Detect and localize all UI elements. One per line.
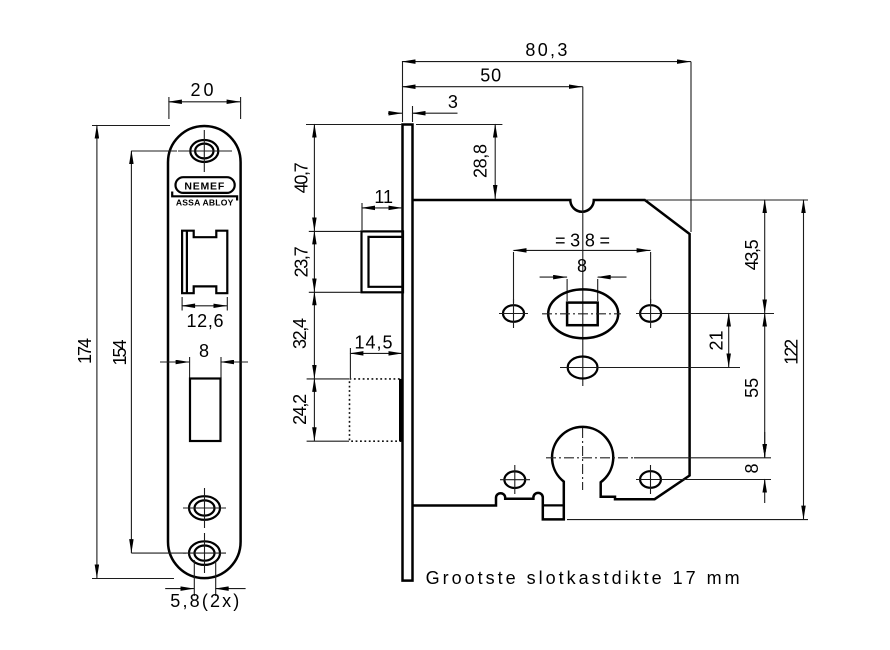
bottom right case hole — [636, 465, 771, 494]
svg-text:Grootste slotkastdikte 17 mm: Grootste slotkastdikte 17 mm — [426, 568, 740, 588]
bottom caption text — [426, 568, 740, 588]
svg-text:43,5: 43,5 — [742, 239, 762, 270]
left case hole — [499, 299, 528, 328]
lock case outline side view — [413, 200, 690, 519]
svg-text:55: 55 — [742, 378, 762, 398]
svg-text:11: 11 — [374, 187, 393, 207]
svg-text:154: 154 — [110, 340, 130, 366]
svg-text:23,7: 23,7 — [292, 246, 312, 277]
svg-text:12,6: 12,6 — [187, 311, 224, 331]
follower hole with square — [542, 289, 621, 338]
dimension 43,5 — [742, 200, 765, 314]
svg-text:8: 8 — [742, 463, 762, 473]
dimension 8 (deadbolt cutout width) — [160, 341, 248, 378]
lower middle hole — [560, 357, 740, 379]
svg-text:122: 122 — [782, 339, 802, 365]
bottom left case hole — [500, 465, 530, 494]
svg-text:NEMEF: NEMEF — [184, 181, 225, 193]
dimension 28,8 — [416, 125, 502, 200]
dimension 122 — [782, 200, 804, 520]
dimension 20 — [169, 80, 241, 119]
svg-text:8: 8 — [577, 256, 587, 276]
bottom screw hole — [183, 533, 226, 573]
case top extension line — [645, 199, 808, 201]
latch bolt side view — [362, 231, 404, 292]
dimension 5,8(2x) — [165, 560, 245, 611]
dimension 21 — [707, 314, 729, 368]
deadbolt cutout front view — [190, 379, 221, 442]
dimension 50 — [403, 66, 583, 211]
dimension 12,6 — [182, 297, 227, 331]
svg-text:14,5: 14,5 — [355, 332, 393, 352]
svg-text:3: 3 — [448, 92, 458, 112]
svg-text:28,8: 28,8 — [471, 144, 491, 178]
ASSA ABLOY logo — [172, 192, 237, 208]
left chain extension lines side view — [306, 125, 402, 442]
svg-text:40,7: 40,7 — [292, 162, 312, 193]
dimension 14,5 — [350, 332, 402, 378]
dimension =38= — [514, 230, 651, 303]
dimension 11 — [362, 187, 403, 230]
dimension 23,7 — [292, 231, 315, 292]
svg-text:174: 174 — [75, 338, 95, 364]
dimension 24,2 — [290, 379, 314, 441]
euro cylinder centerlines — [546, 428, 771, 490]
keyway bottom extension line — [567, 519, 808, 521]
svg-text:24,2: 24,2 — [290, 394, 310, 425]
dimension 8 (follower square) — [540, 256, 627, 301]
dimension 40,7 — [292, 125, 315, 232]
dimension 8 (bottom right) — [742, 432, 765, 503]
svg-text:8: 8 — [199, 341, 209, 361]
dimension 32,4 — [290, 292, 314, 379]
dimension 154 — [110, 151, 186, 553]
top screw hole — [178, 130, 232, 172]
svg-text:50: 50 — [480, 66, 501, 86]
deadbolt side view (hidden) — [350, 379, 404, 441]
dimension 3 (faceplate thickness) — [388, 61, 458, 122]
dimension 80,3 — [403, 40, 692, 232]
follower centerline vertical — [582, 211, 584, 386]
right case hole — [636, 299, 774, 328]
faceplate side view — [403, 125, 413, 581]
latch cutout front view — [182, 231, 227, 294]
dimension 174 — [75, 126, 174, 579]
svg-text:80,3: 80,3 — [525, 40, 567, 60]
svg-text:21: 21 — [707, 330, 727, 350]
dimension 55 — [742, 314, 765, 458]
keyway slot bottom line — [544, 504, 564, 506]
NEMEF logo — [176, 177, 235, 193]
svg-text:ASSA ABLOY: ASSA ABLOY — [176, 198, 234, 208]
svg-text:32,4: 32,4 — [290, 318, 310, 349]
middle screw hole — [183, 488, 226, 528]
faceplate front view outline — [168, 126, 241, 578]
